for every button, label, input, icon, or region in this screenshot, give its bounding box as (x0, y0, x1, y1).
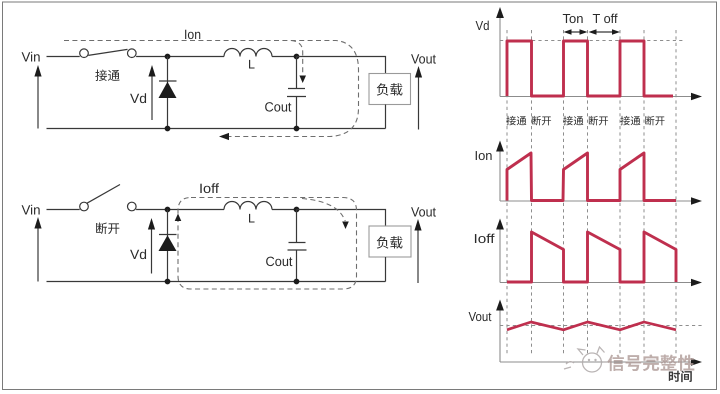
wire switch to node C (136, 209, 224, 211)
current branch arrow into Cout (dashed, pointing down) (291, 41, 303, 76)
svg-text:Vin: Vin (22, 50, 41, 65)
svg-text:Vout: Vout (469, 309, 492, 324)
wire left to switch (bottom circuit) (47, 209, 80, 211)
waveform panel Vd x-axis (500, 96, 692, 98)
waveform panel Ion x-axis (500, 200, 692, 202)
wire bottom rail (bottom circuit) (47, 281, 386, 283)
svg-text:Vin: Vin (22, 203, 41, 218)
voltage arrow Vd (bottom circuit) (151, 227, 153, 274)
current direction arrow Ioff left edge (pointing up) (175, 214, 182, 222)
svg-text:Ioff: Ioff (199, 181, 219, 196)
capacitor Cout (top circuit) (287, 57, 306, 129)
voltage arrow Vin (bottom circuit) (37, 226, 39, 282)
wire bottom rail (top circuit) (47, 128, 386, 130)
wire node D to load (bottom circuit) (297, 210, 386, 227)
svg-text:Vd: Vd (130, 247, 147, 262)
voltage arrow Vout (top circuit) (418, 77, 420, 130)
current branch arrow right of Cout (dashed, pointing down) (302, 199, 345, 222)
waveform panel Ioff x-axis (500, 282, 692, 284)
waveform panel Ioff y-axis (499, 228, 501, 283)
voltage arrow Vin (top circuit) (37, 74, 39, 129)
wire node B to load (top circuit) (297, 57, 386, 74)
switch SW2 open (断开) (80, 185, 136, 211)
wire switch to node A (136, 56, 224, 58)
inductor L (bottom circuit) (224, 202, 272, 210)
svg-text:Vd: Vd (130, 91, 147, 106)
node diode/bottom rail (165, 126, 171, 132)
Vd waveform trace (red square wave) (507, 41, 673, 96)
svg-text:Ioff: Ioff (474, 231, 495, 246)
diode D1 (159, 57, 177, 129)
node diode/bottom rail (bottom circuit) (165, 279, 171, 285)
wire load to bottom rail (bottom circuit) (385, 257, 387, 282)
Vout mean level dashed line (500, 325, 703, 327)
diode D1 (bottom circuit) (159, 210, 177, 282)
svg-text:Vout: Vout (411, 205, 436, 220)
wire inductor to node D (272, 209, 297, 211)
label 断开 (96, 222, 107, 234)
waveform panel Vout y-axis (499, 309, 501, 363)
svg-text:Cout: Cout (265, 100, 292, 115)
svg-text:Vd: Vd (476, 18, 490, 33)
label 时间 (time axis) (669, 371, 692, 382)
Vout waveform trace (red ripple) (507, 322, 676, 330)
switch SW1 closed (接通) (80, 49, 136, 58)
wire top-left to switch (47, 56, 80, 58)
node A: switch/diode junction (165, 54, 171, 60)
waveform panel Vd y-axis (499, 16, 501, 97)
waveform panel Ion y-axis (499, 150, 501, 202)
inductor L (top circuit) (224, 49, 272, 57)
waveform panel Vout x-axis (500, 361, 692, 363)
svg-text:Vout: Vout (411, 52, 436, 67)
capacitor Cout (bottom circuit) (288, 210, 307, 282)
svg-text:L: L (248, 58, 255, 72)
Toff duration arrow (592, 31, 616, 33)
node Cout/bottom rail (bottom circuit) (294, 279, 300, 285)
svg-text:T off: T off (593, 11, 618, 26)
load box 负载 (top circuit) (369, 74, 411, 105)
watermark text 信号完整性 (607, 354, 694, 371)
wire inductor to node B (272, 56, 297, 58)
watermark logo (faint cat) (564, 347, 608, 372)
voltage arrow Vd (top circuit) (151, 74, 153, 120)
node B: inductor/Cout junction (294, 54, 300, 60)
node Cout/bottom rail (294, 126, 300, 132)
current loop Ioff (dashed rounded rectangle) (178, 198, 357, 290)
Ioff waveform trace (red decaying ramps) (507, 232, 676, 282)
wire load to bottom rail (top circuit) (385, 105, 387, 129)
current direction arrow Ion (bottom, pointing left) (219, 133, 229, 140)
label 接通 (95, 70, 107, 82)
current loop Ion (dashed path) (64, 41, 359, 137)
Ion waveform trace (red ramps) (507, 153, 676, 201)
switch state labels 接通/断开 row (506, 116, 664, 126)
load box 负载 (bottom circuit) (369, 226, 411, 257)
svg-text:L: L (248, 212, 255, 226)
voltage arrow Vout (bottom circuit) (417, 230, 419, 283)
svg-text:Cout: Cout (266, 254, 293, 269)
node C: switch/diode junction (bottom circuit) (165, 207, 171, 213)
svg-text:Ton: Ton (563, 11, 584, 26)
waveform time gridlines (dashed) (507, 30, 676, 355)
svg-text:Ion: Ion (475, 148, 493, 163)
svg-text:Ion: Ion (184, 27, 201, 42)
node D: inductor/Cout junction (bottom circuit) (294, 207, 300, 213)
Ton duration arrow (567, 31, 584, 33)
Vd high level dashed line (500, 40, 685, 42)
